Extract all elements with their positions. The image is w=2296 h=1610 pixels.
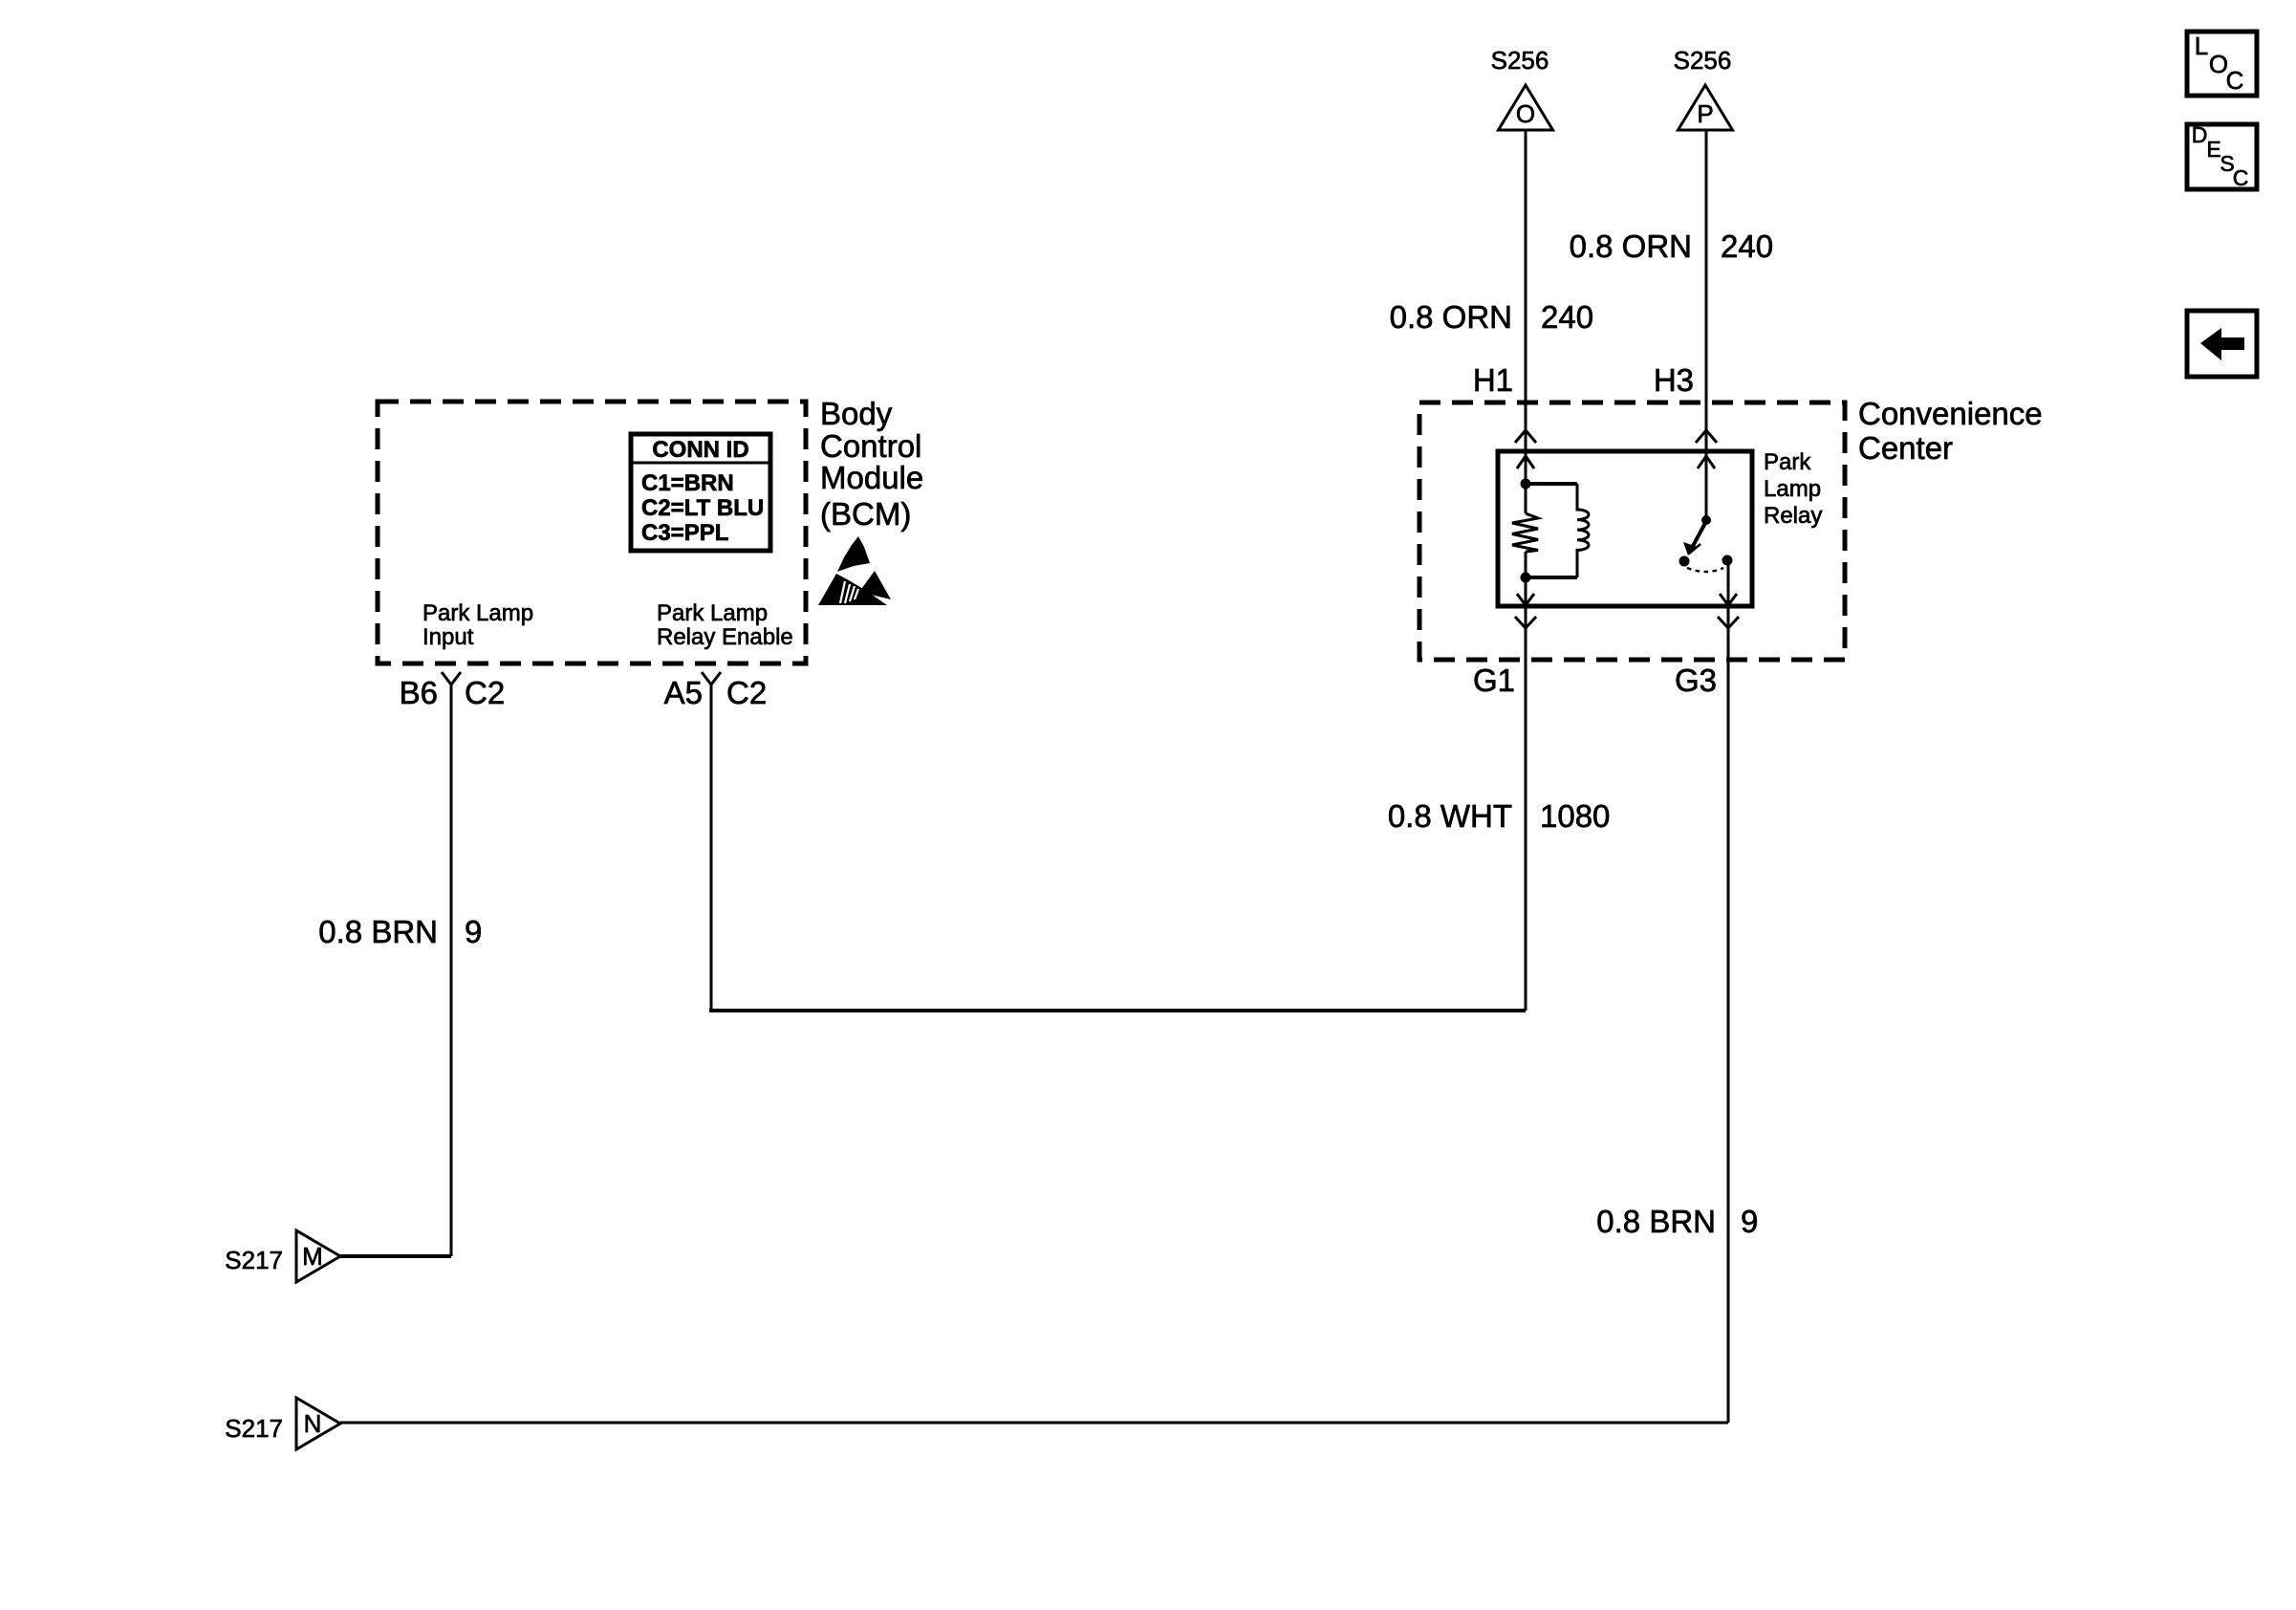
svg-text:C1=BRN: C1=BRN bbox=[641, 470, 734, 496]
svg-text:1080: 1080 bbox=[1540, 798, 1610, 834]
svg-text:Body: Body bbox=[820, 396, 893, 431]
svg-text:P: P bbox=[1697, 99, 1713, 128]
svg-text:O: O bbox=[1516, 99, 1535, 128]
svg-text:0.8 ORN: 0.8 ORN bbox=[1390, 299, 1512, 335]
svg-text:Park Lamp: Park Lamp bbox=[422, 600, 533, 626]
svg-text:CONN ID: CONN ID bbox=[652, 437, 748, 463]
svg-text:Control: Control bbox=[820, 428, 921, 464]
svg-text:0.8 BRN: 0.8 BRN bbox=[318, 914, 438, 949]
svg-text:S256: S256 bbox=[1674, 46, 1732, 75]
svg-text:C: C bbox=[2233, 165, 2249, 190]
svg-text:Convenience: Convenience bbox=[1858, 396, 2043, 431]
svg-text:Park: Park bbox=[1764, 449, 1811, 475]
svg-text:Center: Center bbox=[1858, 430, 1953, 466]
svg-text:0.8 BRN: 0.8 BRN bbox=[1596, 1204, 1716, 1239]
svg-text:C3=PPL: C3=PPL bbox=[641, 520, 728, 546]
svg-text:D: D bbox=[2192, 122, 2208, 147]
svg-text:240: 240 bbox=[1541, 299, 1593, 335]
svg-text:0.8 ORN: 0.8 ORN bbox=[1570, 228, 1692, 264]
svg-text:(BCM): (BCM) bbox=[820, 496, 911, 532]
svg-text:A5: A5 bbox=[664, 675, 703, 710]
svg-text:S256: S256 bbox=[1491, 46, 1549, 75]
svg-text:B6: B6 bbox=[400, 675, 438, 710]
svg-text:C: C bbox=[2226, 66, 2244, 95]
svg-text:Relay: Relay bbox=[1764, 503, 1822, 529]
svg-text:9: 9 bbox=[465, 914, 482, 949]
svg-text:H3: H3 bbox=[1654, 362, 1694, 398]
svg-text:Module: Module bbox=[820, 460, 923, 495]
svg-text:240: 240 bbox=[1721, 228, 1773, 264]
svg-text:Park Lamp: Park Lamp bbox=[657, 600, 768, 626]
svg-text:L: L bbox=[2195, 32, 2208, 60]
svg-text:Lamp: Lamp bbox=[1764, 476, 1821, 502]
svg-text:Relay Enable: Relay Enable bbox=[657, 624, 793, 650]
svg-text:M: M bbox=[302, 1242, 323, 1271]
svg-text:H1: H1 bbox=[1473, 362, 1513, 398]
svg-text:9: 9 bbox=[1741, 1204, 1758, 1239]
svg-text:0.8 WHT: 0.8 WHT bbox=[1388, 798, 1512, 834]
svg-text:N: N bbox=[304, 1409, 322, 1438]
svg-text:C2=LT BLU: C2=LT BLU bbox=[641, 495, 764, 521]
svg-text:C2: C2 bbox=[726, 675, 767, 710]
svg-text:Input: Input bbox=[422, 624, 474, 650]
svg-text:C2: C2 bbox=[465, 675, 505, 710]
svg-text:S217: S217 bbox=[225, 1246, 283, 1274]
svg-text:S217: S217 bbox=[225, 1414, 283, 1443]
svg-text:G3: G3 bbox=[1675, 663, 1717, 698]
svg-text:G1: G1 bbox=[1473, 663, 1515, 698]
